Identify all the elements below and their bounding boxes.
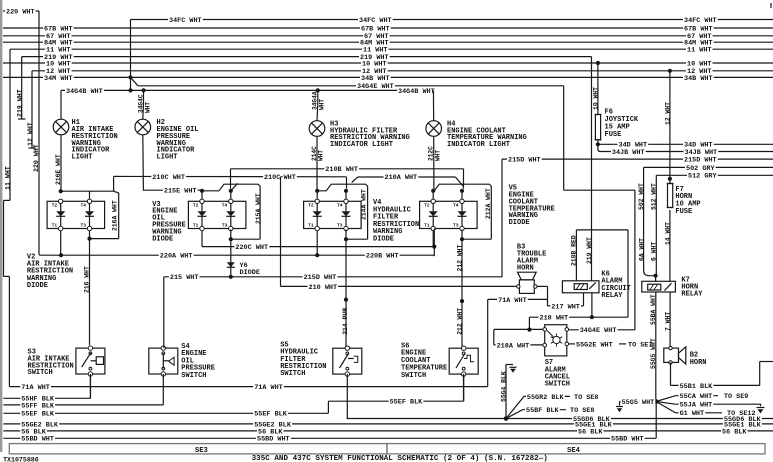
svg-text:216A WHT: 216A WHT	[112, 200, 119, 231]
svg-text:T2: T2	[308, 203, 314, 209]
svg-text:212 WHT: 212 WHT	[457, 244, 464, 271]
svg-text:WHT: WHT	[434, 150, 441, 161]
svg-text:RELAY: RELAY	[681, 291, 703, 299]
svg-text:219 WHT: 219 WHT	[586, 237, 593, 264]
svg-text:10 WHT: 10 WHT	[687, 60, 711, 68]
svg-text:55CA WHT: 55CA WHT	[680, 393, 713, 401]
svg-text:55BD WHT: 55BD WHT	[21, 436, 54, 444]
svg-text:215D WHT: 215D WHT	[508, 157, 541, 165]
svg-text:11 WHT: 11 WHT	[687, 47, 711, 55]
svg-text:T4: T4	[81, 203, 87, 209]
svg-text:HORN: HORN	[517, 265, 534, 273]
svg-text:WHT: WHT	[319, 99, 326, 110]
svg-text:55G5 WHT: 55G5 WHT	[650, 338, 657, 369]
svg-text:T2: T2	[52, 203, 58, 209]
svg-text:67B WHT: 67B WHT	[361, 25, 390, 33]
svg-text:T3: T3	[222, 223, 228, 229]
svg-text:214A WHT: 214A WHT	[360, 189, 367, 220]
svg-text:DIODE: DIODE	[152, 235, 173, 243]
svg-text:71A WHT: 71A WHT	[254, 384, 283, 392]
svg-text:218B RED: 218B RED	[571, 235, 578, 266]
svg-text:HORN: HORN	[690, 359, 707, 367]
svg-text:SWITCH: SWITCH	[280, 370, 305, 378]
svg-text:55EF BLK: 55EF BLK	[390, 399, 424, 407]
svg-text:219 WHT: 219 WHT	[17, 89, 24, 117]
svg-text:55BD WHT: 55BD WHT	[257, 436, 290, 444]
svg-text:SE4: SE4	[567, 447, 581, 455]
svg-text:34JB WHT: 34JB WHT	[685, 149, 718, 157]
svg-text:220A WHT: 220A WHT	[160, 253, 193, 261]
svg-text:218 WHT: 218 WHT	[540, 315, 569, 323]
svg-text:55G4 BLK: 55G4 BLK	[500, 371, 507, 402]
svg-text:210A WHT: 210A WHT	[385, 174, 418, 182]
svg-text:55G2E WHT: 55G2E WHT	[576, 341, 613, 349]
svg-text:55BF BLK: 55BF BLK	[526, 407, 560, 415]
svg-text:55BA WHT: 55BA WHT	[650, 294, 657, 325]
svg-text:502 WHT: 502 WHT	[638, 183, 645, 210]
svg-text:34JB WHT: 34JB WHT	[612, 149, 645, 157]
svg-text:TX1075886: TX1075886	[3, 456, 39, 462]
svg-text:FUSE: FUSE	[605, 131, 622, 139]
svg-text:34B WHT: 34B WHT	[684, 75, 713, 83]
svg-text:7 WHT: 7 WHT	[665, 312, 672, 331]
svg-text:WHT: WHT	[318, 150, 325, 161]
svg-text:214 PUR: 214 PUR	[342, 308, 349, 335]
svg-text:T2: T2	[424, 203, 430, 209]
svg-text:34G4B WHT: 34G4B WHT	[66, 88, 103, 96]
svg-text:6 WHT: 6 WHT	[651, 242, 658, 261]
svg-text:56 BLK: 56 BLK	[578, 428, 603, 436]
svg-text:215D WHT: 215D WHT	[304, 274, 337, 282]
svg-text:34G4A: 34G4A	[312, 91, 319, 110]
svg-text:T4: T4	[453, 203, 459, 209]
svg-text:218A WHT: 218A WHT	[497, 342, 530, 350]
svg-text:10 WHT: 10 WHT	[46, 60, 70, 68]
svg-text:TO SE8: TO SE8	[570, 407, 594, 415]
svg-text:34FC WHT: 34FC WHT	[684, 17, 717, 25]
svg-text:34G4E WHT: 34G4E WHT	[580, 327, 617, 335]
svg-text:T4: T4	[222, 203, 228, 209]
svg-text:210C: 210C	[264, 174, 280, 182]
svg-text:216E WHT: 216E WHT	[55, 154, 62, 185]
svg-text:T3: T3	[453, 223, 459, 229]
svg-text:71A WHT: 71A WHT	[498, 297, 527, 305]
svg-text:SWITCH: SWITCH	[401, 372, 426, 380]
svg-text:DIODE: DIODE	[509, 219, 530, 227]
svg-text:14 WHT: 14 WHT	[664, 222, 671, 245]
svg-text:T2: T2	[193, 203, 199, 209]
svg-text:RELAY: RELAY	[601, 292, 623, 300]
svg-text:T4: T4	[337, 203, 343, 209]
svg-text:67B WHT: 67B WHT	[44, 25, 73, 33]
svg-text:212A WHT: 212A WHT	[485, 188, 492, 219]
svg-text:T1: T1	[52, 223, 58, 229]
svg-text:220B WHT: 220B WHT	[366, 253, 399, 261]
svg-text:215A WHT: 215A WHT	[255, 193, 262, 224]
svg-text:217 WHT: 217 WHT	[551, 303, 580, 311]
svg-text:220 WHT: 220 WHT	[6, 8, 35, 16]
svg-text:LIGHT: LIGHT	[157, 154, 178, 162]
svg-text:215E WHT: 215E WHT	[164, 188, 197, 196]
svg-text:34FC WHT: 34FC WHT	[169, 17, 202, 25]
svg-text:335C AND 437C SYSTEM FUNCTIONA: 335C AND 437C SYSTEM FUNCTIONAL SCHEMATI…	[252, 455, 548, 462]
svg-text:10 WHT: 10 WHT	[592, 87, 599, 110]
svg-text:56 BLK: 56 BLK	[722, 428, 747, 436]
svg-text:TO SE9: TO SE9	[724, 393, 748, 401]
svg-text:SWITCH: SWITCH	[28, 369, 53, 377]
svg-text:G1 WHT: G1 WHT	[680, 410, 704, 418]
svg-text:SWITCH: SWITCH	[181, 372, 206, 380]
svg-text:SWITCH: SWITCH	[545, 381, 570, 389]
svg-text:T3: T3	[337, 223, 343, 229]
svg-text:12 WHT: 12 WHT	[664, 102, 671, 125]
svg-text:INDICATOR LIGHT: INDICATOR LIGHT	[447, 141, 510, 149]
svg-text:LIGHT: LIGHT	[72, 154, 93, 162]
svg-text:FUSE: FUSE	[675, 208, 692, 216]
svg-text:34M WHT: 34M WHT	[44, 75, 73, 83]
svg-text:SE3: SE3	[195, 447, 208, 455]
svg-text:210B WHT: 210B WHT	[325, 166, 358, 174]
svg-text:212 WHT: 212 WHT	[457, 308, 464, 335]
svg-text:67B WHT: 67B WHT	[684, 25, 713, 33]
svg-text:TO SE8: TO SE8	[574, 394, 598, 402]
svg-text:12 WHT: 12 WHT	[27, 122, 34, 146]
svg-text:WHT: WHT	[284, 174, 296, 182]
svg-text:55GR2 BLK: 55GR2 BLK	[527, 394, 565, 402]
svg-text:34G4E WHT: 34G4E WHT	[357, 83, 394, 91]
svg-text:71A WHT: 71A WHT	[21, 384, 50, 392]
svg-text:216 WHT: 216 WHT	[84, 266, 91, 293]
svg-text:55BD WHT: 55BD WHT	[611, 436, 644, 444]
svg-text:DIODE: DIODE	[27, 282, 48, 290]
svg-text:DIODE: DIODE	[373, 235, 394, 243]
svg-text:11 WHT: 11 WHT	[5, 166, 12, 190]
svg-text:215D WHT: 215D WHT	[684, 157, 717, 165]
svg-text:55EF BLK: 55EF BLK	[21, 411, 55, 419]
svg-text:55B1 BLK: 55B1 BLK	[680, 383, 714, 391]
svg-text:T3: T3	[81, 223, 87, 229]
svg-text:T1: T1	[193, 223, 199, 229]
svg-text:55G5 WHT: 55G5 WHT	[622, 399, 655, 407]
svg-text:55FF BLK: 55FF BLK	[21, 402, 55, 410]
svg-text:10 WHT: 10 WHT	[362, 60, 386, 68]
svg-text:6A WHT: 6A WHT	[639, 238, 646, 261]
svg-text:T1: T1	[308, 223, 314, 229]
svg-text:34B WHT: 34B WHT	[361, 75, 390, 83]
svg-text:215 WHT: 215 WHT	[170, 274, 199, 282]
svg-text:512 WHT: 512 WHT	[651, 183, 658, 210]
svg-text:34G4C: 34G4C	[137, 94, 144, 113]
svg-text:55JA WHT: 55JA WHT	[680, 402, 713, 410]
svg-text:55EF BLK: 55EF BLK	[254, 411, 288, 419]
svg-text:T1: T1	[424, 223, 430, 229]
svg-text:INDICATOR LIGHT: INDICATOR LIGHT	[330, 141, 393, 149]
svg-text:210 WHT: 210 WHT	[309, 284, 338, 292]
svg-text:34G4B WHT: 34G4B WHT	[398, 88, 435, 96]
svg-text:502 GRY: 502 GRY	[686, 165, 715, 173]
svg-text:WHT: WHT	[145, 102, 152, 113]
svg-text:220C WHT: 220C WHT	[235, 244, 268, 252]
svg-text:512 GRY: 512 GRY	[688, 173, 717, 181]
svg-text:34FC WHT: 34FC WHT	[359, 17, 392, 25]
svg-text:TO SE7: TO SE7	[628, 341, 652, 349]
svg-text:210C WHT: 210C WHT	[152, 174, 185, 182]
svg-text:DIODE: DIODE	[240, 269, 260, 277]
